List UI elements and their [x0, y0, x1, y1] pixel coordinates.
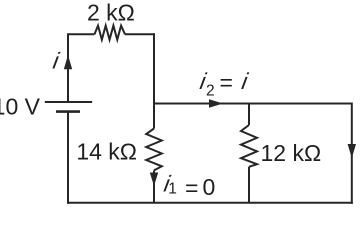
svg-text:0: 0	[203, 174, 216, 200]
wire middle horizontal (node to right)	[154, 103, 352, 105]
svg-text:14 kΩ: 14 kΩ	[76, 139, 137, 165]
svg-text:12 kΩ: 12 kΩ	[261, 140, 322, 166]
battery V1 top plate	[45, 101, 92, 103]
svg-text:10 V: 10 V	[0, 94, 41, 120]
battery V1 bottom plate	[56, 110, 80, 113]
resistor R2 14 kOhm zigzag	[146, 129, 162, 171]
resistor R3 12 kOhm zigzag	[241, 125, 257, 167]
svg-text:=: =	[185, 175, 198, 201]
resistor R1 2 kOhm zigzag	[95, 26, 126, 40]
wire 12k vertical upper stub	[248, 103, 250, 126]
wire middle vertical lower (14k to bottom)	[153, 170, 155, 202]
svg-text:i: i	[240, 68, 251, 94]
wire middle vertical upper (node to 14k)	[153, 33, 155, 128]
wire left vertical lower (battery to bottom)	[67, 112, 69, 204]
current arrow (down) on right vertical branch	[348, 144, 356, 158]
svg-text:i: i	[51, 47, 62, 73]
wire top horizontal left stub	[67, 33, 95, 35]
current arrow i (up) on left branch	[64, 55, 72, 69]
wire bottom horizontal	[67, 202, 353, 204]
wire right vertical	[351, 103, 353, 204]
svg-text:2: 2	[206, 83, 215, 100]
wire 12k vertical lower stub	[248, 167, 250, 203]
svg-text:2 kΩ: 2 kΩ	[87, 0, 135, 26]
svg-text:1: 1	[168, 181, 177, 198]
wire top horizontal right stub	[125, 33, 155, 35]
current arrow i2 (right) on middle wire	[209, 99, 223, 107]
wire top-left vertical segment	[67, 35, 69, 102]
svg-text:=: =	[220, 70, 233, 96]
current arrow i1 (down) on 14k branch	[150, 173, 158, 187]
